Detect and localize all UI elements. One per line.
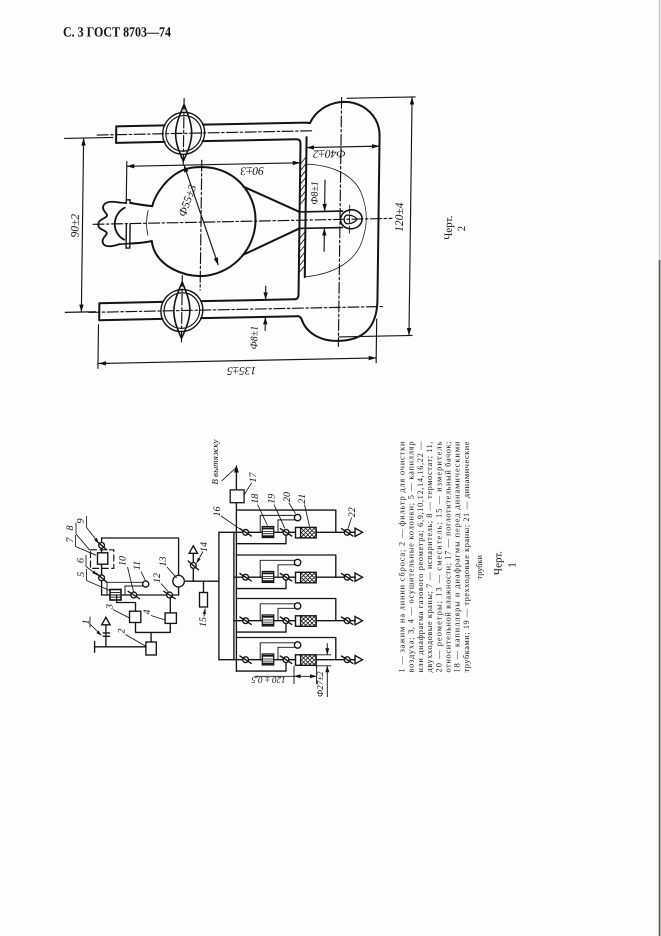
svg-text:Ф8±1: Ф8±1 <box>309 181 320 205</box>
svg-text:19: 19 <box>267 494 278 504</box>
branch 1 reometr 20 bulb <box>294 514 300 520</box>
link column4 up to valve 12 <box>169 598 171 613</box>
bottom side tube <box>99 299 297 320</box>
branch 3 outlet valve (22-type) <box>344 618 350 624</box>
svg-text:трубками; 19 — трехходовые кра: трубками; 19 — трехходовые краны; 21 — д… <box>462 441 471 672</box>
branch 2 bypass from riser <box>236 555 335 577</box>
branch 2 main line <box>234 576 355 578</box>
branch 1 inlet valve (16-type) <box>243 529 249 535</box>
svg-text:15: 15 <box>198 617 209 627</box>
crown head to tab links <box>119 202 131 244</box>
air filter box 2 <box>146 642 156 655</box>
branch 3 three-way valve 19 <box>283 618 289 624</box>
dim Ф40±2 <box>306 146 379 147</box>
top side tube <box>116 123 310 143</box>
branch 3 bypass from riser <box>236 599 335 621</box>
dim 120±4 <box>409 97 412 336</box>
thermostat dashed box 8 <box>91 550 114 569</box>
branch 1 bypass from riser <box>236 510 335 532</box>
svg-text:13: 13 <box>158 557 169 567</box>
branch 4 reometr 20 u-tube <box>260 643 295 660</box>
svg-text:120±4: 120±4 <box>394 202 406 232</box>
svg-text:2: 2 <box>116 629 127 634</box>
exhaust line to hood <box>235 468 237 490</box>
branch 2 reometr 20 u-tube <box>260 560 295 577</box>
riser to evaporator <box>101 564 103 595</box>
branch 1 outlet valve (22-type) <box>344 529 350 535</box>
svg-text:21: 21 <box>297 494 308 504</box>
branch 1 main line <box>234 531 355 533</box>
evaporator box 7 <box>98 553 108 564</box>
mixer 13 <box>173 575 185 587</box>
dim Ф27±2 (dynamic tube diameter) <box>326 643 328 655</box>
centerline: flask axis <box>93 218 392 224</box>
svg-text:Ф8±1: Ф8±1 <box>249 326 260 350</box>
dim Ф55±3 diagonal <box>183 164 220 266</box>
flask neck flare bottom <box>130 241 152 243</box>
svg-text:90±2: 90±2 <box>69 214 81 238</box>
jacket right wall and rounded bottom <box>297 136 380 342</box>
nozzle tip outer <box>340 210 362 229</box>
branch 2 dynamic tube 21 <box>296 572 317 583</box>
svg-text:18: 18 <box>250 494 261 504</box>
branch 3 capillary 18 <box>262 615 273 626</box>
centerline: top side tube axis <box>97 131 313 135</box>
reometr 11 bulb <box>143 581 149 587</box>
svg-text:2: 2 <box>456 226 468 232</box>
vent riser with clamp 1 <box>103 625 109 647</box>
stopper shaft tab (top) <box>126 200 130 203</box>
svg-text:20: 20 <box>282 492 293 502</box>
svg-text:двухходовые краны; 7 — испарит: двухходовые краны; 7 — испаритель; 8 — т… <box>425 442 434 673</box>
humidity meter box 15 <box>200 593 208 608</box>
svg-text:90±3: 90±3 <box>240 164 264 176</box>
centerline: nozzle tip tick <box>348 205 350 233</box>
dim 90±3 <box>127 163 301 166</box>
svg-text:11: 11 <box>132 561 143 570</box>
svg-text:20 — реометры; 13 — смеситель;: 20 — реометры; 13 — смеситель; 15 — изме… <box>434 441 443 672</box>
branch 1 exhaust return <box>236 535 286 544</box>
svg-text:12: 12 <box>152 573 163 583</box>
link column3 to main line <box>117 595 136 611</box>
centerline: bottom side tube axis <box>89 307 384 313</box>
drying column 4 <box>165 613 176 624</box>
svg-text:18 — капилляры и диафрагмы пер: 18 — капилляры и диафрагмы перед динамич… <box>453 441 462 673</box>
flask neck flare top <box>130 202 152 206</box>
supply manifold <box>219 532 234 659</box>
neck cone upper line <box>243 185 300 213</box>
main line <box>102 594 179 596</box>
svg-text:22: 22 <box>347 507 358 517</box>
svg-text:В вытяжку: В вытяжку <box>210 439 220 484</box>
svg-text:17: 17 <box>248 472 259 483</box>
dim 90±2 <box>81 138 83 312</box>
svg-text:6: 6 <box>75 558 86 563</box>
branch 2 inlet valve (16-type) <box>243 574 249 580</box>
branch 4 reometr 20 bulb <box>294 642 300 648</box>
dim 135±5 <box>99 358 377 364</box>
svg-text:8: 8 <box>65 526 76 531</box>
vent branch with valve 14 <box>192 554 194 582</box>
drying column 3 <box>130 611 141 622</box>
branch 3 dynamic tube 21 <box>296 616 317 627</box>
branch 4 capillary 18 <box>262 654 273 665</box>
evaporator top line to mixer <box>102 538 179 575</box>
svg-text:1 — зажим на линии сброса; 2 —: 1 — зажим на линии сброса; 2 — фильтр дл… <box>398 441 407 673</box>
bulb far-side thin arc <box>146 210 148 235</box>
jacket left wall / flange right face <box>305 137 307 277</box>
exhaust leader diagonal <box>222 468 236 481</box>
svg-text:Черт.: Черт. <box>443 215 455 240</box>
branch 4 bypass from riser <box>236 638 335 660</box>
mixer output line <box>184 580 219 582</box>
stopcock 1 (top) <box>162 112 205 155</box>
branch 2 exhaust return <box>236 580 286 589</box>
svg-text:1: 1 <box>507 562 519 568</box>
svg-text:Черт.: Черт. <box>493 551 505 575</box>
neck tube through flange <box>299 211 342 228</box>
branch 3 outlet arrow <box>355 617 363 625</box>
mixer bottom link <box>178 587 180 595</box>
branch 3 exhaust return <box>236 624 286 633</box>
centerline: jacket vertical axis <box>338 97 341 346</box>
jacket dome top <box>310 101 380 137</box>
centerline: stopcock 1 vertical <box>182 99 185 167</box>
vent arrow (atmosphere) <box>102 617 110 625</box>
branch 4 outlet valve (22-type) <box>344 657 350 663</box>
capillary 5 <box>110 590 121 601</box>
branch 3 main line <box>234 620 355 622</box>
branch 2 outlet arrow <box>355 573 363 581</box>
svg-text:3: 3 <box>104 604 115 610</box>
absorber box 17 <box>230 490 244 503</box>
neck cone lower line <box>243 228 300 255</box>
link filter to columns <box>136 623 171 643</box>
svg-text:Ф40±2: Ф40±2 <box>313 147 346 160</box>
svg-text:9: 9 <box>75 519 86 524</box>
branch 2 outlet valve (22-type) <box>344 574 350 580</box>
inlet tee line <box>95 642 146 653</box>
branch 4 outlet arrow <box>355 656 363 664</box>
branch 2 capillary 18 <box>262 572 273 583</box>
stopcock 2 (bottom) <box>161 289 204 332</box>
svg-text:14: 14 <box>199 542 210 552</box>
branch 4 exhaust return <box>236 663 286 672</box>
centerline: stopcock 2 vertical <box>180 276 183 345</box>
jacket inner bore outline (thin) <box>305 163 367 277</box>
svg-text:120 ± 0,5: 120 ± 0,5 <box>251 675 286 685</box>
humidity meter box 15 stub <box>203 581 205 592</box>
valve 10 <box>131 592 137 598</box>
branch 3 reometr 20 bulb <box>294 603 300 609</box>
branch 1 three-way valve 19 <box>283 529 289 535</box>
branch 1 capillary 18 <box>262 527 273 538</box>
svg-text:С. 3 ГОСТ 8703—74: С. 3 ГОСТ 8703—74 <box>63 26 171 41</box>
nozzle tip inner opening <box>344 215 357 224</box>
valve 12 <box>167 592 173 598</box>
branch 4 inlet valve (16-type) <box>243 657 249 663</box>
branch 4 main line <box>234 659 355 661</box>
centerline: bulb vertical axis <box>200 160 202 290</box>
svg-text:135±5: 135±5 <box>227 364 257 377</box>
branch 2 three-way valve 19 <box>283 574 289 580</box>
flask bulb (sphere) <box>151 166 256 277</box>
branch 3 inlet valve (16-type) <box>243 618 249 624</box>
svg-text:5: 5 <box>76 572 87 577</box>
dim 120±0,5 (dynamic tube length) <box>255 675 317 677</box>
flange joint hatching <box>299 157 307 273</box>
top tube wall merging into flange wall <box>200 139 300 301</box>
crown stopper head (wavy) <box>98 202 120 247</box>
dim Ф8±1 upper <box>324 180 326 212</box>
svg-text:16: 16 <box>212 507 223 517</box>
svg-text:или диафрагма газового реометр: или диафрагма газового реометра; 6,9,10,… <box>416 441 425 673</box>
svg-text:воздуха; 3, 4 — осушительные к: воздуха; 3, 4 — осушительные колонки; 5 … <box>407 442 416 673</box>
dim Ф8±1 lower <box>265 286 267 300</box>
branch 4 dynamic tube 21 <box>296 655 317 666</box>
svg-text:трубки: трубки <box>475 554 484 579</box>
branch 1 outlet arrow <box>355 528 363 536</box>
branch 1 dynamic tube 21 <box>296 527 317 538</box>
branch 3 reometr 20 u-tube <box>260 604 295 621</box>
branch 4 three-way valve 19 <box>283 657 289 663</box>
svg-text:Ф27±2: Ф27±2 <box>315 671 325 697</box>
valve 6 <box>99 575 105 581</box>
svg-text:4: 4 <box>142 610 153 615</box>
branch 1 reometr 20 u-tube <box>260 515 295 532</box>
branch 2 reometr 20 bulb <box>294 559 300 565</box>
reometr 11 u-tube <box>107 582 143 595</box>
scan edge line <box>659 0 661 260</box>
svg-text:10: 10 <box>117 556 128 566</box>
valve 9 <box>101 538 103 553</box>
exhaust riser <box>235 503 237 672</box>
svg-text:относительной влажности; 17 —: относительной влажности; 17 — поглотител… <box>444 442 453 673</box>
stopper shaft (bottom) <box>126 225 130 248</box>
crown knob arc <box>115 208 125 240</box>
